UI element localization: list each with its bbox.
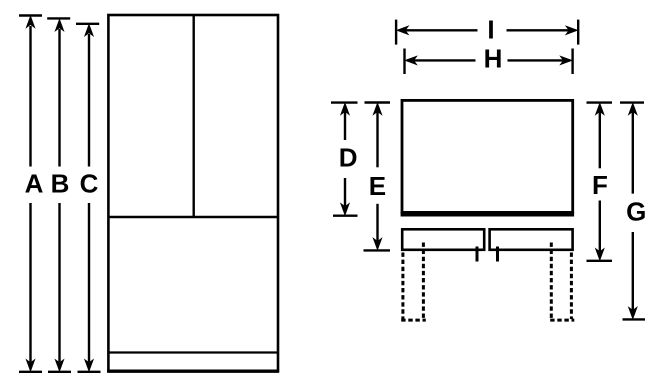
svg-text:F: F bbox=[592, 170, 608, 200]
svg-text:B: B bbox=[51, 168, 70, 198]
svg-text:C: C bbox=[80, 168, 99, 198]
svg-text:G: G bbox=[626, 197, 646, 227]
svg-text:A: A bbox=[25, 168, 44, 198]
svg-text:E: E bbox=[369, 171, 386, 201]
svg-text:I: I bbox=[487, 15, 494, 45]
svg-text:H: H bbox=[484, 44, 503, 74]
svg-text:D: D bbox=[339, 143, 358, 173]
